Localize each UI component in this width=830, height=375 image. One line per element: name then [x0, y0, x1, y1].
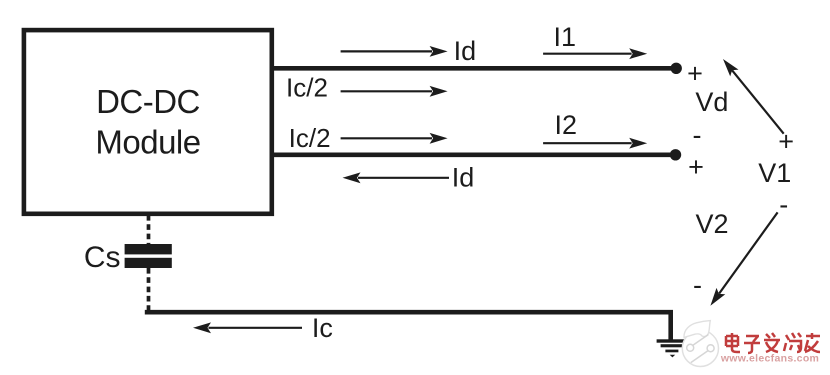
label - above node 2: [693, 120, 702, 150]
current arrow I1 (rightward toward node 1): [543, 48, 647, 59]
svg-text:I2: I2: [555, 110, 578, 140]
svg-text:Cs: Cs: [84, 241, 121, 274]
svg-text:Ic/2: Ic/2: [289, 123, 331, 153]
capacitor Cs top plate: [125, 244, 172, 254]
current arrow Id (bottom, leftward): [343, 172, 450, 183]
svg-text:V1: V1: [758, 158, 791, 188]
svg-text:Ic: Ic: [312, 313, 333, 343]
label Ic/2 (row 1): [286, 73, 328, 103]
label Vd: [695, 87, 728, 117]
label Id (top): [454, 36, 477, 66]
svg-text:-: -: [693, 120, 702, 150]
svg-text:I1: I1: [554, 22, 577, 52]
DC-DC module U1 box: [24, 30, 272, 214]
label I1: [554, 22, 577, 52]
voltage arrow V1 (pointing up-left): [723, 59, 784, 134]
svg-text:www.elecfans.com: www.elecfans.com: [720, 353, 819, 365]
svg-text:Id: Id: [452, 163, 475, 193]
wire dashed (module bottom to capacitor Cs top plate): [147, 215, 151, 244]
ground symbol: [657, 339, 686, 357]
voltage arrow V2 (pointing down-left): [710, 212, 777, 305]
label + below node 2: [688, 152, 704, 182]
svg-text:Vd: Vd: [695, 87, 728, 117]
label I2: [555, 110, 578, 140]
watermark logo circle: [682, 321, 718, 367]
svg-text:-: -: [693, 270, 702, 300]
label V2: [695, 209, 728, 239]
current arrow Ic/2 (row 1, rightward): [341, 86, 448, 97]
svg-text:-: -: [779, 190, 788, 220]
watermark text 电子发烧友 (drawn strokes): [726, 333, 820, 353]
wire bottom return (to ground): [145, 312, 671, 340]
wire bottom output (module to node 2): [272, 153, 674, 158]
svg-text:+: +: [688, 152, 704, 182]
label Ic: [312, 313, 333, 343]
label Ic/2 (row 2): [289, 123, 331, 153]
label - below V1: [779, 190, 788, 220]
label Id (bottom): [452, 163, 475, 193]
current arrow Id (top, rightward): [341, 46, 448, 57]
label V1: [758, 158, 791, 188]
node 1 junction dot: [671, 63, 682, 74]
label + at node 1: [687, 59, 703, 89]
wire dashed (capacitor Cs bottom plate to return wire): [147, 268, 151, 311]
label Cs: [84, 241, 121, 274]
svg-text:DC-DC: DC-DC: [96, 83, 200, 120]
current arrow Ic/2 (row 2, rightward): [341, 133, 448, 144]
wire top output (module to node 1): [272, 66, 674, 71]
current arrow I2 (rightward toward node 2): [543, 138, 647, 149]
current arrow Ic (leftward on return wire): [193, 322, 302, 333]
capacitor Cs bottom plate: [125, 258, 172, 268]
svg-text:+: +: [687, 59, 703, 89]
svg-text:Module: Module: [95, 124, 200, 161]
svg-text:+: +: [778, 127, 794, 157]
svg-text:Id: Id: [454, 36, 477, 66]
svg-text:V2: V2: [695, 209, 728, 239]
svg-text:Ic/2: Ic/2: [286, 73, 328, 103]
node 2 junction dot: [670, 149, 681, 160]
watermark text www.elecfans.com: [720, 353, 819, 365]
module label "DC-DC Module": [95, 83, 200, 161]
label + at V1 arrow tail: [778, 127, 794, 157]
label - above ground (V2 minus): [693, 270, 702, 300]
